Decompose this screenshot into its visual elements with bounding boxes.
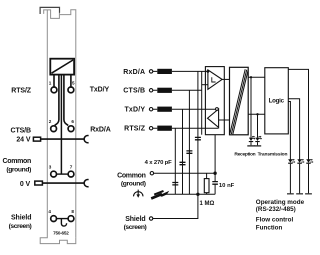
svg-text:Reception: Reception	[234, 151, 255, 157]
wire logic out 1	[288, 69, 308, 159]
wire transmission LED riser	[257, 114, 259, 137]
wire box to pin 6	[64, 75, 68, 126]
node receiver input dot	[207, 70, 210, 73]
svg-text:RTS/Z: RTS/Z	[124, 126, 146, 133]
choke L1 RxD/A	[157, 69, 172, 74]
functional earth symbol	[134, 190, 144, 198]
wire driver input	[219, 119, 230, 121]
svg-text:Logic: Logic	[269, 98, 285, 105]
svg-text:Transmission: Transmission	[258, 151, 288, 157]
isolation barrier stripes	[230, 69, 248, 134]
LED reception	[247, 136, 255, 147]
module outline 750-652	[40, 10, 76, 244]
svg-text:Shield: Shield	[11, 215, 31, 222]
node reception tap	[250, 76, 252, 78]
capacitor C3 270pF	[180, 162, 186, 164]
svg-text:TxD/Y: TxD/Y	[90, 87, 110, 94]
wire tap RxD/A down	[197, 71, 199, 194]
svg-text:4 x 270 pF: 4 x 270 pF	[145, 160, 173, 166]
wire tap TxD/Y down	[182, 109, 184, 194]
svg-text:Operating mode: Operating mode	[256, 199, 305, 206]
terminal RTS/Z	[149, 127, 152, 130]
receiver hysteresis mark	[212, 77, 216, 82]
wire TxD/Y row	[153, 108, 216, 110]
logic box	[265, 68, 289, 134]
terminal Shield	[149, 217, 152, 220]
isolation barrier box	[230, 67, 249, 135]
svg-text:750-652: 750-652	[53, 231, 69, 236]
pin 5	[68, 87, 74, 93]
wire box to pin 5	[70, 75, 72, 88]
LED mode 1	[287, 159, 295, 195]
svg-text:TxD/Y: TxD/Y	[124, 107, 145, 114]
wire RTS/Z row	[153, 127, 219, 129]
svg-text:1: 1	[49, 81, 52, 86]
svg-text:10 nF: 10 nF	[219, 183, 235, 189]
receiver A1	[208, 70, 222, 89]
wire R1 top	[206, 173, 208, 178]
wire RxD/A row	[153, 70, 208, 72]
driver A2	[208, 109, 219, 127]
choke L2 CTS/B	[157, 88, 172, 93]
wire isolation to logic RX	[248, 76, 265, 78]
pin 6	[68, 126, 74, 132]
svg-text:CTS/B: CTS/B	[123, 88, 145, 95]
svg-text:5: 5	[72, 81, 75, 86]
terminal Common	[150, 172, 153, 175]
pin 2	[51, 126, 57, 132]
wire tap RTS/Z down	[174, 128, 176, 194]
wire box to pin 1	[53, 75, 55, 88]
terminal TxD/Y	[149, 108, 152, 111]
terminal CTS/B	[149, 89, 152, 92]
driver bubble	[216, 108, 219, 111]
wire R1 bottom	[206, 193, 208, 195]
svg-text:8: 8	[71, 209, 74, 214]
resistor R1 1 Mohm	[204, 179, 209, 193]
svg-text:1 MΩ: 1 MΩ	[200, 201, 215, 207]
LED mode 2	[296, 159, 304, 195]
24V blade contact	[33, 137, 40, 141]
LED mode 3	[305, 159, 313, 195]
wire transceiver ground riser	[214, 135, 216, 174]
wire receiver input 2 stub	[202, 84, 208, 86]
choke L4 RTS/Z	[157, 126, 172, 131]
svg-text:(screen): (screen)	[124, 224, 147, 231]
svg-text:Flow control: Flow control	[256, 217, 294, 224]
svg-text:Common: Common	[117, 172, 146, 179]
wire CTS/B row	[153, 89, 202, 91]
pin 4	[51, 216, 57, 222]
power jumper contact box	[50, 59, 74, 75]
svg-text:3: 3	[49, 165, 52, 170]
wire common rail	[154, 172, 216, 174]
0V power rail wire	[42, 182, 84, 184]
24V power rail wire	[41, 138, 85, 140]
wire C5 bottom	[214, 184, 216, 194]
wire C5 top	[214, 173, 216, 181]
svg-text:Common: Common	[2, 158, 31, 165]
module top claw	[40, 7, 59, 14]
svg-text:RxD/A: RxD/A	[90, 127, 111, 134]
node transmission tap	[256, 113, 258, 115]
svg-text:(ground): (ground)	[121, 180, 146, 187]
transceiver box U1	[205, 67, 224, 135]
wire receiver output	[222, 78, 229, 80]
svg-text:4: 4	[48, 209, 51, 214]
pin 1	[51, 87, 57, 93]
wire logic out 3	[288, 102, 290, 160]
pin 7	[68, 171, 74, 177]
svg-text:(screen): (screen)	[9, 223, 32, 230]
capacitor C1 270pF	[195, 137, 201, 139]
wire receiver input riser	[201, 71, 203, 134]
jumper box diagonal	[52, 60, 74, 73]
wire logic to isolation TX	[248, 113, 265, 115]
svg-text:7: 7	[70, 165, 73, 170]
LED transmission	[254, 136, 262, 147]
svg-text:CTS/B: CTS/B	[10, 128, 31, 135]
node earth junction	[196, 193, 199, 196]
shield loop pins 4-8	[56, 219, 68, 226]
svg-text:(ground): (ground)	[6, 167, 31, 174]
pin 3	[51, 171, 57, 177]
svg-text:24 V: 24 V	[16, 137, 30, 144]
wire earth rail	[166, 193, 215, 195]
wire box to pins 3/7 bar	[60, 75, 62, 175]
pin 8	[68, 216, 74, 222]
0V blade contact	[35, 181, 43, 185]
wire logic out 2	[288, 99, 299, 160]
choke L3 TxD/Y	[157, 107, 172, 112]
svg-text:6: 6	[71, 119, 74, 124]
wire tap CTS/B down	[188, 90, 190, 194]
capacitor C2 270pF	[186, 151, 192, 153]
wire box to pin 2	[55, 75, 59, 126]
svg-text:Shield: Shield	[125, 216, 145, 223]
0V socket contact	[84, 180, 88, 187]
wire pins 3-7 link	[56, 173, 68, 175]
svg-text:(RS-232/-485): (RS-232/-485)	[256, 206, 296, 213]
svg-text:0 V: 0 V	[20, 181, 31, 188]
svg-text:RTS/Z: RTS/Z	[11, 88, 32, 95]
wire reception LED riser	[250, 77, 252, 137]
svg-text:RxD/A: RxD/A	[123, 69, 145, 76]
capacitor C5 10nF	[212, 182, 218, 185]
chassis earth symbol	[151, 191, 168, 199]
capacitor C4 270pF	[172, 183, 178, 185]
terminal RxD/A	[149, 70, 152, 73]
wire shield riser	[153, 194, 198, 218]
node common junction	[213, 172, 216, 175]
svg-text:2: 2	[49, 119, 52, 124]
24V socket contact	[84, 136, 88, 143]
svg-text:Function: Function	[256, 225, 283, 232]
